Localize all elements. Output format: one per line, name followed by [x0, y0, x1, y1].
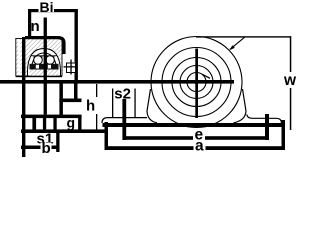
race shoulder dark left [34, 56, 43, 60]
w tangent line from circle top [196, 36, 291, 37]
w dimension line upper [290, 36, 292, 72]
e label [193, 130, 205, 141]
leader stub at bore [202, 74, 210, 78]
svg-text:h: h [86, 98, 95, 115]
Bi label [39, 1, 55, 12]
bore line [16, 76, 62, 77]
outer housing circle [151, 37, 242, 128]
a left leg [105, 122, 109, 150]
section: sphere inner arc [31, 53, 57, 76]
svg-text:n: n [31, 18, 40, 35]
circle r3 [172, 58, 221, 107]
right flank line + fillet [234, 89, 247, 123]
b dimension line [21, 146, 60, 150]
svg-text:Bi: Bi [40, 0, 54, 15]
ball left [34, 56, 43, 65]
grease fitting box [67, 63, 76, 73]
bore hatched band [30, 70, 59, 76]
inner ring white slots [36, 65, 39, 69]
e dimension line [124, 136, 269, 140]
a label [194, 141, 206, 151]
svg-text:a: a [195, 138, 204, 155]
h dimension line upper [96, 84, 97, 97]
b label [41, 143, 52, 155]
left flank line + fillet [147, 89, 157, 123]
svg-text:w: w [283, 72, 297, 89]
s2 right thin leg [134, 89, 135, 118]
section: cap top edge (also n dim line) [25, 38, 64, 54]
left pad top [102, 118, 147, 123]
grease fitting cross vertical [70, 60, 71, 75]
step box left vertical [59, 84, 63, 117]
inner ring dark band [30, 64, 59, 70]
a right leg [282, 120, 286, 150]
h dimension line lower [96, 114, 97, 131]
race line across dome [32, 54, 57, 57]
section: seal groove white strip [18, 40, 20, 75]
centerline axis (shared by both views) [0, 80, 234, 84]
step crossbar [59, 99, 81, 103]
Bi left extension leg [28, 9, 31, 38]
w dimension line lower [290, 88, 292, 130]
b right leg [56, 133, 59, 152]
n right extension leg (continues to pad line) [44, 18, 47, 115]
svg-text:b: b [42, 140, 51, 157]
right pad top [247, 115, 282, 124]
ball right [46, 56, 55, 65]
leader line with arrowhead at outer circle [230, 37, 245, 49]
section: body hatched background [16, 39, 62, 77]
Bi right extension leg [75, 9, 78, 81]
extension line V1 (section left edge, s1/b left leg) [22, 37, 25, 157]
circle r4 [180, 66, 213, 99]
svg-text:g: g [67, 115, 76, 131]
base bottom [103, 123, 286, 127]
s2 left thin leg [112, 89, 113, 118]
circle r2 [162, 48, 231, 117]
stub 2 below pad line [43, 118, 46, 130]
grease fitting cross horizontal [64, 66, 78, 67]
dimension Bi line [28, 9, 78, 12]
a dimension line [106, 146, 285, 150]
s1 line / base bottom line [21, 129, 106, 133]
stub 1 below pad line [32, 118, 36, 130]
bore circle [187, 73, 206, 92]
right bolt thick leg [265, 114, 269, 140]
step box right vertical [74, 84, 78, 103]
race shoulder dark right [46, 56, 55, 60]
pad top line left view [21, 115, 82, 119]
left bolt thick line [122, 99, 126, 140]
base right face below pad line [78, 117, 81, 133]
section: sphere outer arc (white dome) [28, 49, 61, 77]
stub 3 below pad line [53, 118, 56, 130]
vertical crosshair [195, 49, 198, 119]
